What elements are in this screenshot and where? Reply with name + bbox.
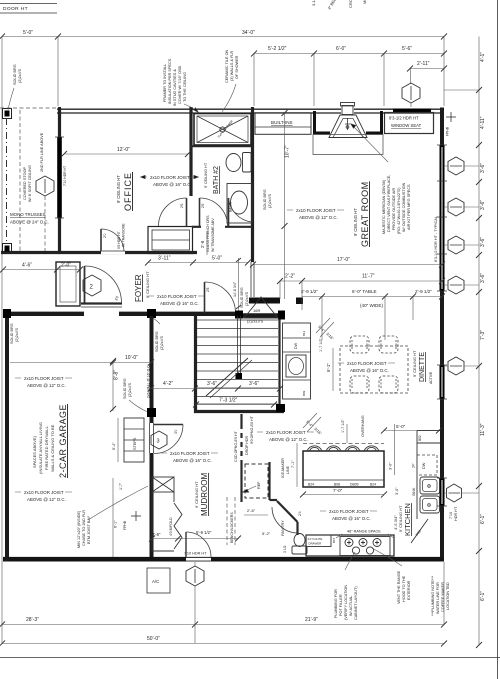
svg-text:GLASS FRENCH DRS: GLASS FRENCH DRS (206, 215, 210, 252)
svg-text:34’-0”: 34’-0” (242, 30, 255, 36)
svg-text:24" KCHTE: 24" KCHTE (308, 537, 323, 541)
svg-text:ABOVE @ 24" O.C.: ABOVE @ 24" O.C. (10, 220, 49, 225)
window callout hexagon top (402, 83, 420, 103)
bath door leaf and arc (228, 198, 230, 226)
stair west wall (194, 316, 197, 413)
svg-text:STEPS: STEPS (133, 437, 137, 450)
svg-text:2x10 FLOOR JOIST: 2x10 FLOOR JOIST (24, 376, 64, 381)
svg-text:2x10 FLOOR JOIST: 2x10 FLOOR JOIST (347, 361, 387, 366)
svg-text:ABOVE @ 12" O.C.: ABOVE @ 12" O.C. (299, 215, 338, 220)
stair break line (206, 358, 248, 396)
svg-text:6’-0”: 6’-0” (336, 46, 346, 52)
svg-text:CSD OPNG-8'0 HT: CSD OPNG-8'0 HT (234, 430, 238, 462)
svg-text:ABOVE @ 16" O.C.: ABOVE @ 16" O.C. (332, 516, 371, 521)
svg-text:UP: UP (257, 314, 262, 318)
svg-text:3’-6”: 3’-6” (480, 237, 486, 247)
mudroom right wall (240, 414, 242, 424)
top dim extension verticals (1, 37, 3, 644)
svg-text:2ND FLR LINE ABOVE: 2ND FLR LINE ABOVE (40, 132, 44, 172)
great room vertical dim 10'-7" (284, 113, 286, 299)
svg-text:3’-6”: 3’-6” (207, 381, 217, 387)
svg-text:MONO TRUSSES: MONO TRUSSES (10, 212, 46, 217)
svg-text:7'10 HDR HT: 7'10 HDR HT (184, 552, 207, 556)
svg-text:10’-0”: 10’-0” (125, 355, 138, 361)
svg-text:3’-6”: 3’-6” (249, 381, 259, 387)
stoop dims 4'-6" 2'-0" (3, 269, 80, 271)
svg-text:OVERHANG: OVERHANG (361, 415, 365, 437)
svg-text:9' CEILING HT: 9' CEILING HT (398, 505, 403, 532)
svg-text:7'10: 7'10 (449, 512, 453, 519)
svg-text:2x10 FLOOR JOIST: 2x10 FLOOR JOIST (266, 430, 306, 435)
island stools (307, 446, 379, 451)
svg-text:W/ OUTSIDE COMBUSTION: W/ OUTSIDE COMBUSTION (402, 182, 406, 232)
svg-text:21’-9”: 21’-9” (305, 617, 318, 623)
svg-text:TO THE CEILING: TO THE CEILING (183, 72, 187, 102)
stoop posts (3, 109, 12, 119)
svg-text:VENT THE RANGE: VENT THE RANGE (397, 570, 401, 604)
svg-text:SOLID BRG: SOLID BRG (123, 378, 127, 399)
exterior bottom wall (3, 557, 444, 562)
svg-text:FPHB: FPHB (123, 520, 127, 530)
svg-text:2’-6”: 2’-6” (247, 508, 256, 513)
svg-text:MIN 12"x20" (INSIDE): MIN 12"x20" (INSIDE) (77, 510, 81, 548)
vanity bath2 (227, 184, 252, 224)
svg-text:ABOVE @ 16" O.C.: ABOVE @ 16" O.C. (350, 368, 389, 373)
stoop north wall (1, 251, 59, 254)
svg-text:12’-0”: 12’-0” (117, 147, 130, 153)
svg-text:B24: B24 (370, 483, 376, 487)
svg-text:9' CEILING HT: 9' CEILING HT (145, 271, 150, 298)
svg-text:HOOD TO THE: HOOD TO THE (402, 575, 406, 602)
kitchen right counter (417, 431, 440, 520)
svg-text:3'-0": 3'-0" (389, 462, 393, 470)
front door leaf (84, 266, 86, 303)
foyer closet dims 3'-11" 5'-0" (148, 262, 248, 264)
svg-text:1'-7 1/2": 1'-7 1/2" (341, 418, 345, 433)
post at dinette opening (296, 298, 303, 305)
svg-text:16R: 16R (253, 308, 260, 313)
svg-text:BENCH/LOCKERS: BENCH/LOCKERS (230, 512, 234, 543)
svg-text:28’-3”: 28’-3” (26, 617, 39, 623)
stair south wall (194, 410, 284, 413)
svg-text:3-1/4" BED MLDG: 3-1/4" BED MLDG (311, 0, 316, 6)
svg-text:7’-0”: 7’-0” (333, 488, 343, 493)
svg-text:5’-2 1/2”: 5’-2 1/2” (268, 46, 287, 52)
wet bar counter right of stairs (283, 323, 311, 399)
svg-text:6’-1”: 6’-1” (326, 363, 331, 372)
svg-text:11’-7”: 11’-7” (362, 274, 375, 280)
svg-text:DROP HDR: DROP HDR (245, 435, 249, 455)
kitchen island (303, 451, 384, 487)
svg-text:10’-7”: 10’-7” (285, 145, 291, 158)
svg-text:3: 3 (157, 439, 160, 445)
window in top wall at window seat (393, 109, 431, 114)
french door left leaf (186, 198, 188, 226)
svg-text:B08: B08 (334, 483, 340, 487)
svg-text:COVER W/ 7/16" OSB: COVER W/ 7/16" OSB (178, 65, 182, 104)
fireplace surround side walls (315, 111, 331, 133)
french door right leaf (199, 198, 201, 226)
svg-text:9'0 OPNG-8'0 HT: 9'0 OPNG-8'0 HT (250, 415, 254, 444)
cased opening below bath right wall (250, 262, 252, 297)
svg-text:REF: REF (257, 481, 261, 489)
dishwasher dashed (417, 455, 437, 475)
svg-text:9'6 HDR HT: 9'6 HDR HT (117, 231, 121, 249)
wall stub between french doors and bath door (192, 226, 201, 228)
pantry wall vertical (296, 522, 298, 535)
svg-text:CERAMIC TILE ON: CERAMIC TILE ON (225, 49, 229, 83)
garage-mudroom door leaf and arc (154, 424, 183, 426)
svg-text:5’-0”: 5’-0” (396, 424, 406, 429)
svg-text:8'3-1/2 HDR HT: 8'3-1/2 HDR HT (389, 116, 419, 121)
svg-text:7'-1": 7'-1" (291, 460, 295, 468)
front door arc (85, 266, 122, 303)
hearth (313, 135, 383, 155)
DIMENSIONS: top dimension line 5'-0" / 34'-0" (2, 36, 444, 38)
svg-text:PROVIDE OUTSIDE AIR: PROVIDE OUTSIDE AIR (392, 188, 396, 230)
door schedule hexagon 3 (151, 431, 167, 449)
svg-text:DINETTE: DINETTE (419, 352, 426, 382)
svg-text:4’-11”: 4’-11” (480, 116, 486, 129)
svg-text:SOLID BRG: SOLID BRG (240, 287, 244, 308)
svg-text:IN STUD CAVITIES &: IN STUD CAVITIES & (173, 69, 177, 106)
svg-text:SOLID BRG: SOLID BRG (263, 189, 267, 210)
svg-text:OF SHOWER: OF SHOWER (235, 55, 239, 79)
svg-text:2’-9 1/2”: 2’-9 1/2” (415, 289, 432, 294)
svg-text:W/ ACTUAL: W/ ACTUAL (349, 596, 353, 616)
svg-text:17’-0”: 17’-0” (337, 257, 350, 263)
svg-text:HDR HT: HDR HT (454, 506, 458, 521)
back door arc (186, 532, 211, 557)
svg-text:3’-6”: 3’-6” (480, 273, 486, 283)
right wall window hexagons (447, 157, 465, 502)
STAIRS (197, 258, 278, 404)
garage steps to mudroom (124, 418, 144, 462)
office left wall window (57, 137, 62, 218)
svg-text:WINDOW SEAT: WINDOW SEAT (391, 123, 422, 128)
svg-text:4'-5 3/4": 4'-5 3/4" (393, 515, 398, 530)
kitchen top dim 5'-0" (384, 430, 439, 432)
svg-text:(2)2x4'S: (2)2x4'S (268, 194, 272, 208)
svg-text:2x10 FLOOR JOIST: 2x10 FLOOR JOIST (24, 490, 64, 495)
svg-text:3’-6”: 3’-6” (480, 200, 486, 210)
svg-text:2x10 FLOOR JOIST: 2x10 FLOOR JOIST (157, 294, 197, 299)
kitchen corner angled counter (411, 519, 428, 543)
svg-text:2’-8: 2’-8 (200, 240, 205, 248)
hall closet door leaf (204, 282, 206, 313)
svg-text:(2)2x4'S: (2)2x4'S (18, 69, 22, 83)
svg-text:8’-8”: 8’-8” (114, 370, 120, 380)
svg-text:FRAMER TO INSTALL: FRAMER TO INSTALL (163, 64, 167, 102)
closet depth dim 2'-8 (206, 231, 208, 255)
top wall gap at fireplace chimney (341, 107, 354, 115)
svg-text:SOLID BRG: SOLID BRG (10, 323, 14, 344)
svg-text:4’-6”: 4’-6” (22, 263, 32, 269)
svg-text:2'6: 2'6 (201, 203, 205, 208)
BOTTOM dimension lines (2, 624, 444, 626)
FIREPLACE (313, 103, 388, 163)
bench lockers dashed note (226, 497, 228, 545)
svg-text:DIRECT VENT GAS FIREPLACE,: DIRECT VENT GAS FIREPLACE, (387, 175, 391, 232)
svg-text:DB09: DB09 (350, 483, 359, 487)
svg-text:6’-1”: 6’-1” (480, 591, 486, 601)
svg-text:2x6 WALL @ 16" O.C.: 2x6 WALL @ 16" O.C. (147, 364, 151, 398)
svg-text:OFFICE: OFFICE (123, 172, 133, 211)
svg-text:(VERIFY LOCATION: (VERIFY LOCATION (344, 585, 348, 620)
dim row 2'-9 1/2" table (302, 296, 442, 298)
svg-text:5’-2”: 5’-2” (262, 531, 271, 536)
post garage right wall bottom (147, 408, 156, 417)
svg-text:2'8: 2'8 (206, 287, 210, 292)
svg-text:W/ TRANSOME ABV: W/ TRANSOME ABV (211, 218, 215, 252)
svg-text:WALLS & CEILING TO BE: WALLS & CEILING TO BE (50, 424, 55, 472)
sheet bottom border line (0, 657, 500, 659)
door schedule hexagon 2 (83, 275, 101, 296)
svg-text:2’-8”: 2’-8” (152, 532, 161, 537)
svg-text:BATH #2: BATH #2 (213, 166, 220, 194)
svg-text:CABINET LAYOUT): CABINET LAYOUT) (354, 586, 358, 620)
svg-text:(40” WIDE): (40” WIDE) (360, 303, 383, 308)
kitchen dim 3'-0" vertical (394, 424, 396, 475)
dim 2'-2" / 11'-7" (280, 280, 442, 282)
svg-text:***PLUMBING NOTE***: ***PLUMBING NOTE*** (431, 575, 435, 616)
garage-mudroom door opening (149, 423, 154, 453)
svg-text:PLUMBING FOR: PLUMBING FOR (334, 589, 338, 618)
svg-text:SOLID BRG: SOLID BRG (155, 331, 159, 352)
svg-text:B12: B12 (302, 330, 306, 336)
svg-text:B02: B02 (418, 435, 422, 441)
svg-text:DOOR HT: DOOR HT (3, 6, 28, 12)
svg-text:ABOVE @ 12" O.C.: ABOVE @ 12" O.C. (27, 497, 66, 502)
fireplace center marks (345, 118, 350, 130)
svg-text:ABOVE @ 16" O.C.: ABOVE @ 16" O.C. (153, 182, 192, 187)
svg-text:2’-11”: 2’-11” (417, 61, 430, 67)
svg-text:24": 24" (412, 463, 416, 468)
right wall window dinette (440, 365, 445, 399)
svg-text:7’-3”: 7’-3” (480, 330, 486, 340)
svg-text:MAJESTIC MERIDIAN (DBV36): MAJESTIC MERIDIAN (DBV36) (382, 179, 386, 234)
svg-text:SOLID BRG: SOLID BRG (13, 64, 17, 85)
svg-text:2'4: 2'4 (298, 511, 302, 516)
garage right wall (150, 316, 154, 557)
svg-text:2x10 FLOOR JOIST: 2x10 FLOOR JOIST (150, 175, 190, 180)
stair center rail (237, 316, 239, 377)
svg-text:8'3-1/2 HDR HT - TYPICAL: 8'3-1/2 HDR HT - TYPICAL (434, 216, 438, 262)
svg-text:2’-0”: 2’-0” (61, 263, 71, 269)
svg-text:3'0: 3'0 (174, 429, 178, 434)
svg-text:2x10 FLOOR JOIST: 2x10 FLOOR JOIST (296, 208, 336, 213)
sheet top title lines (0, 3, 57, 5)
FPHB right wall top (446, 116, 456, 118)
svg-text:6’-1”: 6’-1” (480, 514, 486, 524)
svg-text:B24: B24 (308, 483, 314, 487)
svg-text:ACTIVE: ACTIVE (429, 371, 433, 384)
svg-text:PANTRY: PANTRY (280, 520, 285, 536)
svg-text:FOYER: FOYER (134, 274, 143, 302)
front door threshold (81, 302, 122, 304)
svg-text:9' CEILING HT: 9' CEILING HT (412, 350, 417, 377)
svg-text:2'0: 2'0 (103, 233, 107, 238)
office left exterior wall (58, 107, 61, 254)
svg-text:11’-3”: 11’-3” (480, 423, 486, 436)
stoop hexagon callout (36, 176, 54, 196)
bath right wall (great room left) (251, 107, 254, 262)
dinette table dashed (340, 346, 408, 393)
svg-text:MUDROOM: MUDROOM (200, 473, 209, 516)
kitchen west wall by fridge (268, 462, 270, 500)
garage front wall (3, 312, 240, 316)
up arrow (244, 297, 278, 318)
svg-text:(RO: 42"Wx40-1/8"Hx22"D): (RO: 42"Wx40-1/8"Hx22"D) (397, 187, 401, 234)
firebox trapezoid (329, 115, 367, 138)
svg-text:SINK: SINK (412, 487, 416, 496)
sheet right border line (497, 0, 499, 679)
svg-text:7’-3 1/2”: 7’-3 1/2” (219, 398, 238, 404)
svg-text:2x10 FLOOR JOIST: 2x10 FLOOR JOIST (170, 451, 210, 456)
stair bottom dims (151, 388, 280, 390)
island width dim 7'-0" (303, 494, 384, 496)
office closet (148, 227, 193, 254)
mudroom closet (152, 492, 174, 551)
svg-text:W/ TRANSOME: W/ TRANSOME (122, 223, 126, 247)
bath bottom wall (225, 226, 252, 228)
office entry door (100, 229, 102, 251)
svg-text:2-CAR GARAGE: 2-CAR GARAGE (58, 404, 68, 478)
back door opening in bottom wall (186, 558, 211, 561)
svg-text:ABOVE @ 16" O.C.: ABOVE @ 16" O.C. (173, 458, 212, 463)
svg-text:CROWN: CROWN (348, 0, 353, 8)
stair treads (197, 320, 278, 404)
svg-text:(3) WALLS & FLR: (3) WALLS & FLR (230, 51, 234, 81)
shower (194, 114, 251, 146)
svg-text:5’-0”: 5’-0” (23, 30, 33, 36)
svg-text:1'-7": 1'-7" (119, 482, 123, 490)
svg-text:2’-2”: 2’-2” (285, 274, 295, 280)
island left dim 7'-1" (296, 443, 298, 487)
BUILT-INS cabinet run (255, 113, 311, 135)
stair east wall (278, 316, 280, 411)
bifold door (174, 503, 182, 549)
svg-text:6’-0” TABLE: 6’-0” TABLE (352, 289, 377, 294)
exterior right wall (440, 108, 444, 562)
WINDOW SEAT (385, 113, 434, 134)
svg-text:COFFEE MAKER: COFFEE MAKER (441, 582, 445, 612)
svg-text:14'-8 3/4": 14'-8 3/4" (233, 281, 237, 297)
great room dim 17'-0" (253, 264, 442, 266)
exterior top wall (double line) (57, 108, 444, 110)
svg-text:A/C: A/C (152, 579, 159, 584)
svg-text:FPHB: FPHB (446, 126, 450, 136)
dinette vertical dim 6'-1" (332, 348, 334, 391)
diagonal dim note 5'-4 3/16" (316, 318, 334, 337)
RIGHT SIDE dimension line (478, 37, 480, 646)
svg-text:50’-0”: 50’-0” (147, 636, 160, 642)
stair top wall between posts (240, 313, 284, 317)
dinette chairs (350, 336, 398, 393)
covered stoop dashed lines (6, 118, 8, 244)
svg-text:4’-1”: 4’-1” (480, 52, 486, 62)
svg-text:LOCATION TBD: LOCATION TBD (446, 582, 450, 610)
svg-text:7'10 HDR HT: 7'10 HDR HT (63, 166, 67, 186)
svg-text:3 1/2: 3 1/2 (283, 545, 287, 553)
svg-text:SPACES ABOVE): SPACES ABOVE) (32, 435, 37, 468)
mudroom vertical dim 6'-1" (112, 478, 114, 557)
right wall window group (4 windows great room) (440, 145, 445, 291)
svg-text:GREAT ROOM: GREAT ROOM (360, 181, 370, 247)
svg-text:3'-0": 3'-0" (395, 487, 399, 495)
pantry angled wall and door (277, 501, 298, 522)
svg-text:B09: B09 (302, 390, 306, 396)
svg-text:(2)2x10'S: (2)2x10'S (247, 320, 264, 324)
svg-text:KITCHEN: KITCHEN (403, 503, 412, 536)
svg-text:DW: DW (422, 462, 426, 469)
svg-text:2x10 FLOOR JOIST: 2x10 FLOOR JOIST (329, 509, 369, 514)
svg-text:W/ 8' SOFIT CEILING: W/ 8' SOFIT CEILING (28, 165, 32, 202)
post below closet (235, 311, 243, 319)
svg-text:WATER LINE FOR: WATER LINE FOR (436, 582, 440, 614)
svg-text:INSULATION PER SPECS: INSULATION PER SPECS (168, 58, 172, 104)
closet dim ext line (238, 258, 240, 311)
leader from majestic note (351, 124, 388, 162)
mudroom chase with X (152, 477, 174, 492)
svg-text:(2)2x4'S: (2)2x4'S (160, 336, 164, 350)
dimension 2'-11" (410, 68, 444, 70)
svg-text:5’-9 1/2”: 5’-9 1/2” (196, 530, 212, 535)
svg-text:9' CEILING HT: 9' CEILING HT (116, 175, 121, 203)
svg-text:9' CEILING HT: 9' CEILING HT (204, 162, 208, 188)
garage left exterior wall (5, 311, 9, 561)
fridge dashed box (245, 464, 268, 498)
garage dim 10'-0" / 8'-8" (10, 362, 151, 364)
shower bottom wall (190, 145, 252, 147)
bottom counter run (306, 535, 394, 556)
svg-text:6'-1": 6'-1" (114, 520, 118, 528)
svg-text:2'6: 2'6 (180, 203, 184, 208)
svg-text:ABOVE @ 12" O.C.: ABOVE @ 12" O.C. (27, 383, 66, 388)
svg-text:(2)2x4'S: (2)2x4'S (245, 292, 249, 306)
svg-text:CHASE TO 2ND FLR: CHASE TO 2ND FLR (82, 510, 86, 546)
toilet bath2 (243, 153, 252, 173)
diagonal dim note at island corner (303, 413, 321, 432)
svg-text:B15: B15 (332, 537, 336, 543)
svg-text:ABOVE @ 12" O.C.: ABOVE @ 12" O.C. (269, 437, 308, 442)
svg-text:5'-4": 5'-4" (112, 442, 116, 450)
svg-text:5’-6”: 5’-6” (402, 46, 412, 52)
svg-text:DW: DW (294, 342, 298, 349)
porch niche by front door (56, 262, 80, 306)
svg-text:ICE-MAKER: ICE-MAKER (281, 458, 285, 478)
svg-text:3’-6”: 3’-6” (480, 163, 486, 173)
svg-text:BUILT-INS: BUILT-INS (271, 120, 293, 125)
office / bath divider wall (189, 107, 192, 196)
svg-text:POT FILLER: POT FILLER (339, 594, 343, 616)
office width dim 12'-0" (64, 153, 188, 155)
range (340, 537, 390, 556)
svg-text:2’-9 1/2”: 2’-9 1/2” (301, 289, 318, 294)
svg-text:DRAWER: DRAWER (309, 542, 322, 546)
chimney vent center (342, 106, 353, 115)
svg-text:4'0 BIFOLD: 4'0 BIFOLD (169, 517, 173, 536)
front door opening (84, 311, 119, 316)
A/C pad (147, 568, 170, 593)
kitchen double sink (420, 477, 440, 494)
svg-text:MLDG: MLDG (362, 0, 367, 4)
svg-text:4’-2”: 4’-2” (163, 381, 173, 387)
svg-text:FIRE RATED DRYWALL: FIRE RATED DRYWALL (44, 426, 49, 470)
svg-text:9' CEILING HT: 9' CEILING HT (194, 481, 199, 508)
right wall window kitchen (440, 478, 445, 506)
powder toilet (292, 546, 307, 554)
